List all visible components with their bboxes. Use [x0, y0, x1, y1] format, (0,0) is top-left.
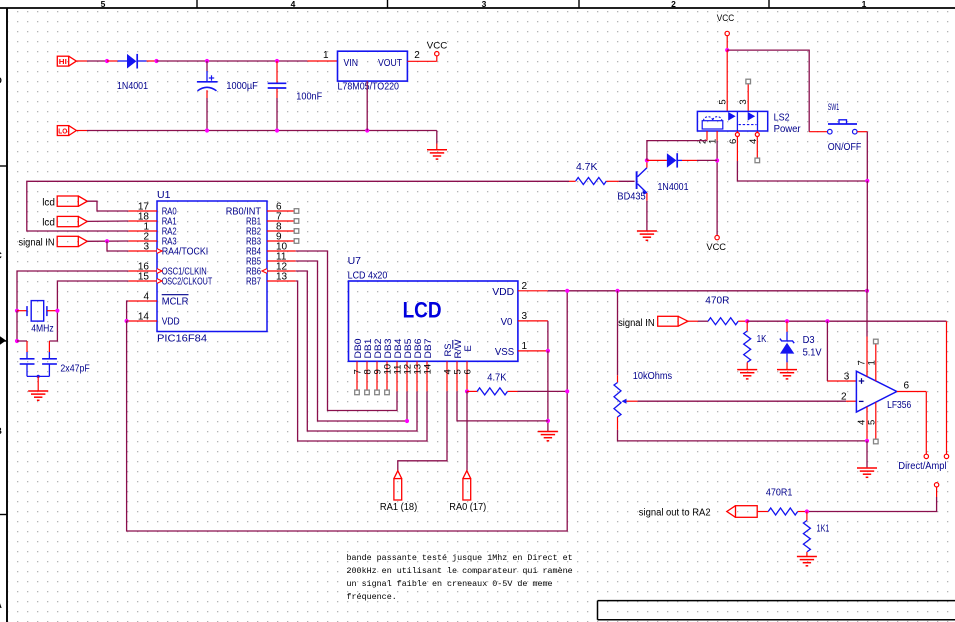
pin 1 RA2 [128, 221, 177, 237]
sheet border left [6, 8, 8, 622]
svg-text:6: 6 [728, 139, 739, 144]
junction [105, 59, 109, 63]
svg-text:4: 4 [748, 139, 759, 144]
svg-text:D3: D3 [803, 334, 815, 346]
wire LO line [76, 130, 87, 132]
svg-text:2: 2 [522, 281, 528, 292]
junction [405, 419, 409, 423]
svg-text:470R: 470R [705, 295, 729, 307]
svg-text:DB7: DB7 [423, 339, 434, 359]
port lcd 1 [57, 196, 78, 206]
ic U1 box [157, 201, 267, 332]
pin 18 RA1 [128, 211, 177, 227]
svg-text:RA0 (17): RA0 (17) [449, 502, 486, 513]
svg-text:2: 2 [841, 391, 847, 402]
svg-text:HI: HI [59, 57, 67, 66]
pin 13 RB7 [246, 271, 296, 287]
pin 8 RB2 [246, 221, 296, 237]
diode D3 zener 5.1V [786, 321, 788, 332]
svg-text:3: 3 [143, 241, 149, 252]
pin 1 relay [716, 131, 718, 141]
pin 4 MCLR [128, 291, 189, 307]
wire direct path [946, 321, 948, 454]
svg-text:BD435: BD435 [617, 191, 645, 203]
ground (1K) [737, 369, 757, 371]
unconnected terminal [355, 390, 360, 395]
svg-text:1K1: 1K1 [817, 522, 830, 534]
pin 1 [875, 344, 877, 381]
svg-text:signal IN: signal IN [618, 318, 655, 329]
capacitor 100nF [276, 61, 278, 83]
wire MCLR loop [127, 301, 129, 321]
pin 12 DB5 [402, 339, 414, 392]
pin 4 RS [446, 361, 448, 391]
pin 10 RB4 [246, 241, 296, 257]
junction [785, 319, 789, 323]
svg-text:lcd: lcd [42, 197, 55, 208]
clock arrow OSC1 [157, 269, 162, 274]
pin 3 wire [827, 380, 856, 382]
svg-text:5.1V: 5.1V [803, 347, 822, 359]
svg-text:SW1: SW1 [828, 102, 840, 113]
junction [105, 239, 109, 243]
pin 6 E [466, 361, 468, 391]
diode D 1N4001 (PSU) [107, 60, 118, 62]
sheet border top [0, 7, 955, 9]
wire VDD line [548, 290, 867, 292]
wire power loop bottom [127, 291, 568, 531]
wire V- to ground [866, 441, 868, 468]
junction [645, 158, 649, 162]
unconnected terminal [294, 229, 299, 234]
pin 14 DB7 [422, 339, 434, 392]
svg-text:3: 3 [522, 311, 528, 322]
junction [865, 439, 869, 443]
junction [725, 48, 729, 52]
junction [865, 289, 869, 293]
wire pin3 from signal line [826, 321, 828, 381]
wire emitter to ground [646, 201, 648, 231]
pin 15 OSC2/CLKOUT [128, 271, 212, 287]
svg-text:VIN: VIN [344, 57, 359, 69]
wire wiper to inverting input [627, 400, 638, 402]
relay coil [702, 121, 723, 129]
resistor 4.7K (LCD) [467, 390, 477, 392]
wire pin6 to switch net [737, 161, 867, 181]
pin 3 V0 [518, 320, 548, 322]
junction [745, 319, 749, 323]
wire capacitor common [27, 375, 49, 377]
svg-text:5: 5 [101, 0, 106, 9]
junction [715, 158, 719, 162]
svg-text:1N4001: 1N4001 [117, 80, 148, 92]
svg-text:5: 5 [866, 420, 877, 425]
svg-text:OSC2/CLKOUT: OSC2/CLKOUT [162, 276, 213, 288]
ground (PSU) [427, 149, 447, 151]
wire VSS to ground [547, 351, 549, 431]
wire RB6 to DB6 [296, 271, 417, 431]
wire RB7 to DB7 [296, 281, 427, 441]
junction [15, 309, 19, 313]
clock arrow OSC2 [157, 279, 162, 284]
clock arrow RB6 [262, 269, 267, 274]
pin 2 RA3 [128, 231, 177, 247]
capacitor 47pF right [48, 341, 50, 352]
pin 6 output [897, 391, 927, 393]
svg-text:2x47pF: 2x47pF [60, 363, 89, 375]
pin 6 RB0/INT [226, 201, 296, 217]
ground (1K1) [797, 556, 817, 558]
pin 17 RA0 [128, 201, 177, 217]
port LO [57, 126, 68, 136]
svg-text:LCD: LCD [403, 298, 442, 323]
diode D 1N4001 (relay) [647, 159, 667, 161]
junction [805, 509, 809, 513]
crystal X 4MHz [17, 310, 27, 312]
pin 2 wire from regulator [407, 60, 436, 62]
connector Direct/Ampl [924, 454, 928, 458]
wire collector to relay pin2 [647, 141, 707, 161]
svg-text:fréquence.: fréquence. [347, 592, 397, 602]
border tick top 1 [196, 0, 198, 8]
pin 3 RA4/TOCKI [128, 241, 208, 257]
wire OSC1 to crystal [17, 271, 128, 311]
pin 5 R/W [456, 361, 458, 391]
wire switch down [866, 132, 868, 181]
svg-text:4: 4 [291, 0, 296, 9]
wire RB4 to DB4 [296, 251, 397, 411]
svg-text:470R1: 470R1 [766, 487, 793, 499]
svg-text:2: 2 [671, 0, 676, 9]
resistor 470R1 [757, 511, 768, 513]
title block [598, 601, 955, 620]
junction [565, 289, 569, 293]
svg-text:3: 3 [844, 371, 850, 382]
svg-text:200kHz en utilisant le compara: 200kHz en utilisant le comparateur qui r… [347, 566, 573, 576]
wire V0 down [547, 321, 549, 351]
ground (BD435) [637, 230, 657, 232]
wire crystal left down [16, 311, 18, 341]
transistor Q BD435 [636, 171, 638, 189]
wire E to RA0 port [466, 391, 468, 470]
op-amp U LF356 [856, 371, 896, 412]
junction [615, 289, 619, 293]
border tick top 4 [768, 0, 770, 8]
pin 10 DB3 [382, 339, 394, 392]
svg-text:un signal faible en creneaux 0: un signal faible en creneaux 0-5V de mem… [347, 579, 553, 589]
pin 9 RB3 [246, 231, 296, 247]
wire to ground [37, 376, 39, 391]
relay LS2 box [697, 111, 767, 131]
wire signal in [688, 320, 698, 322]
port signal out [727, 506, 736, 518]
capacitor 47pF left [26, 341, 28, 352]
svg-text:U7: U7 [348, 255, 362, 267]
pin collector [646, 160, 648, 167]
junction [15, 339, 19, 343]
svg-text:VCC: VCC [706, 242, 726, 253]
svg-text:E: E [463, 345, 474, 351]
svg-text:RB7: RB7 [246, 276, 261, 288]
unconnected terminal [385, 390, 390, 395]
wire VDD stub [127, 320, 129, 322]
svg-text:L78M05/TO220: L78M05/TO220 [338, 81, 400, 93]
unconnected terminal [294, 219, 299, 224]
svg-text:1: 1 [522, 341, 528, 352]
pin 1 wire to regulator [307, 60, 337, 62]
svg-text:Power: Power [774, 123, 801, 135]
pin 5 relay [726, 50, 728, 111]
border tick left 3 [0, 514, 7, 516]
note text [347, 553, 573, 602]
wire regulator gnd [366, 81, 368, 130]
junction [825, 319, 829, 323]
svg-text:V0: V0 [501, 316, 513, 328]
pin 6 relay [736, 131, 738, 132]
junction [205, 59, 209, 63]
MCLR overline [162, 294, 189, 296]
pin 9 DB2 [372, 339, 384, 392]
regulator U L78M05 [338, 51, 408, 81]
svg-text:bande passante testé jusque 1M: bande passante testé jusque 1Mhz en Dire… [347, 553, 573, 563]
pin 13 DB6 [412, 339, 424, 392]
port RA0 [463, 471, 471, 479]
ground (D3) [777, 369, 797, 371]
svg-text:RA4/TOCKI: RA4/TOCKI [162, 246, 209, 258]
pin 2 wire [846, 400, 856, 402]
junction [546, 349, 550, 353]
svg-text:14: 14 [422, 364, 433, 375]
svg-text:1N4001: 1N4001 [658, 181, 689, 193]
port RA1 [394, 471, 402, 479]
pin 7 V+ [866, 337, 868, 377]
left edge cursor arrow [0, 336, 6, 344]
unconnected terminal [365, 390, 370, 395]
wire signal IN to RA3 [87, 240, 128, 242]
pin 8 DB1 [362, 339, 374, 392]
junction [365, 128, 369, 132]
pin 4 V- [866, 407, 868, 441]
pin 7 RB1 [246, 211, 296, 227]
wire output down [925, 392, 927, 455]
wire branch to RA4 [107, 241, 128, 251]
wire signal line [747, 320, 946, 322]
svg-text:5: 5 [718, 99, 729, 104]
ground (crystal) [28, 390, 48, 392]
port lcd 2 [57, 216, 78, 226]
svg-text:6: 6 [904, 381, 910, 392]
junction [546, 419, 550, 423]
svg-text:15: 15 [138, 271, 150, 282]
svg-text:VSS: VSS [495, 346, 514, 358]
wire lcd1 to RA0 [87, 201, 128, 211]
wire to left capacitor [17, 340, 27, 342]
junction [275, 59, 279, 63]
svg-text:4MHz: 4MHz [31, 322, 54, 334]
wire VCC to switch [727, 50, 809, 132]
svg-text:LO: LO [58, 127, 67, 136]
unconnected terminal [746, 79, 751, 84]
unconnected terminal [375, 390, 380, 395]
svg-text:signal IN: signal IN [19, 238, 55, 249]
port HI [57, 56, 68, 66]
pin 7 DB0 [352, 339, 364, 392]
wire pot feed [617, 291, 619, 376]
junction [205, 128, 209, 132]
ground (LCD) [538, 431, 558, 433]
potentiometer 10kOhms [617, 375, 619, 382]
wire lcd2 to RA1 [87, 220, 128, 222]
relay contact arrows [728, 112, 735, 121]
unconnected terminal [874, 339, 879, 344]
pin 2 relay [706, 131, 708, 141]
pin 11 DB4 [392, 339, 404, 392]
wire HI to diode [76, 60, 87, 62]
svg-text:10kOhms: 10kOhms [633, 370, 672, 382]
svg-text:1: 1 [862, 0, 867, 9]
power port VCC (PSU) [435, 52, 439, 56]
svg-text:MCLR: MCLR [162, 296, 189, 308]
svg-text:VDD: VDD [162, 316, 180, 328]
svg-text:14: 14 [138, 311, 150, 322]
svg-text:4.7K: 4.7K [487, 371, 506, 383]
unconnected terminal [755, 158, 760, 163]
svg-text:PIC16F84: PIC16F84 [157, 333, 207, 345]
border tick left 1 [0, 165, 7, 167]
svg-text:13: 13 [276, 271, 288, 282]
junction [154, 59, 158, 63]
svg-text:LCD 4x20: LCD 4x20 [348, 270, 388, 282]
junction [565, 389, 569, 393]
ground (LF356) [857, 467, 877, 469]
svg-text:Direct/Ampl: Direct/Ampl [898, 460, 946, 472]
svg-text:lcd: lcd [42, 218, 55, 229]
pin 2 VDD [518, 290, 548, 292]
ic U7 LCD box [349, 281, 518, 361]
pin 4 relay [756, 131, 758, 132]
pin 11 RB5 [246, 251, 296, 267]
wire selector out [936, 487, 938, 497]
svg-text:1K: 1K [757, 333, 767, 345]
resistor 1K [746, 321, 748, 331]
svg-text:6: 6 [462, 369, 473, 374]
svg-text:LS2: LS2 [774, 111, 790, 123]
wire HI line [157, 60, 308, 62]
wire 4.7K to power loop [518, 390, 568, 392]
wire RA2 to transistor base [27, 181, 569, 231]
wire RW to gnd net [457, 391, 548, 421]
svg-text:100nF: 100nF [296, 90, 322, 102]
svg-text:3: 3 [482, 0, 487, 9]
wire VCC down [726, 36, 728, 50]
clock arrow RA4 [157, 249, 162, 254]
junction [275, 128, 279, 132]
resistor 470R [708, 318, 738, 325]
pin 1 VSS [518, 350, 548, 352]
svg-text:VCC: VCC [427, 40, 448, 51]
junction [865, 179, 869, 183]
svg-text:1: 1 [866, 360, 877, 365]
border tick left 2 [0, 340, 7, 342]
unconnected terminal [294, 209, 299, 214]
svg-text:RA1 (18): RA1 (18) [380, 502, 417, 513]
pin 12 RB6 [246, 261, 296, 277]
border tick top 3 [578, 0, 580, 8]
unconnected terminal [874, 439, 879, 444]
svg-text:VOUT: VOUT [378, 57, 402, 69]
svg-text:3: 3 [738, 99, 749, 104]
resistor 4.7K (base) [569, 180, 576, 182]
wire V+ maroon [866, 291, 868, 337]
svg-text:U1: U1 [157, 189, 171, 201]
power port VCC (bottom) [716, 234, 718, 237]
pin 3 relay [747, 84, 749, 111]
svg-text:VDD: VDD [492, 286, 514, 298]
resistor 1K1 [806, 512, 808, 521]
wire LO to ground [436, 131, 438, 144]
wire RS to RA1 port [398, 391, 447, 470]
svg-text:4.7K: 4.7K [576, 161, 597, 173]
pin emitter [646, 193, 648, 201]
svg-text:2: 2 [414, 50, 420, 61]
wire switched VCC down [866, 181, 868, 291]
wire pot bottom [618, 430, 868, 441]
pin 5 [875, 402, 877, 439]
junction [125, 319, 129, 323]
svg-text:1: 1 [323, 50, 329, 61]
wire RB5 to DB5 [296, 261, 407, 421]
junction [55, 309, 59, 313]
svg-text:signal out to RA2: signal out to RA2 [639, 507, 711, 518]
port signal IN (left) [57, 236, 78, 246]
svg-text:ON/OFF: ON/OFF [828, 141, 862, 153]
svg-text:VCC: VCC [717, 13, 735, 24]
capacitor 1000uF [206, 61, 208, 71]
unconnected terminal [294, 239, 299, 244]
pin 14 VDD [128, 311, 180, 327]
wire OSC2 jog [49, 281, 128, 341]
junction [465, 389, 469, 393]
svg-text:4: 4 [143, 291, 149, 302]
pin 16 OSC1/CLKIN [128, 261, 206, 277]
svg-text:1000µF: 1000µF [226, 80, 257, 92]
wire pin1 to VCC [716, 141, 718, 235]
svg-text:LF356: LF356 [887, 399, 911, 411]
border tick top 2 [387, 0, 389, 8]
